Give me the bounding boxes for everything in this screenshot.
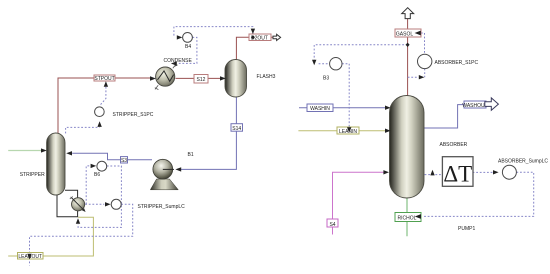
svg-text:S12: S12 (197, 77, 206, 83)
svg-text:GASOL: GASOL (396, 31, 413, 37)
svg-text:STRIPPER: STRIPPER (20, 172, 45, 178)
svg-text:S14: S14 (232, 126, 241, 132)
svg-text:WASHOUT: WASHOUT (462, 103, 487, 109)
svg-text:RICHOL: RICHOL (398, 216, 417, 222)
svg-text:B6: B6 (94, 172, 100, 178)
svg-text:STRIPPER_S1PC: STRIPPER_S1PC (113, 112, 154, 118)
svg-text:FLASH3: FLASH3 (257, 74, 276, 80)
svg-text:B4: B4 (185, 44, 191, 50)
svg-text:S3: S3 (121, 158, 127, 164)
svg-text:ΔT: ΔT (443, 161, 472, 186)
svg-text:B1: B1 (188, 152, 194, 158)
svg-text:B3: B3 (323, 76, 329, 82)
svg-text:WASHIN: WASHIN (310, 106, 330, 112)
svg-text:ABSORBER: ABSORBER (440, 142, 468, 148)
svg-text:S4: S4 (329, 222, 335, 228)
svg-text:PUMP1: PUMP1 (458, 226, 475, 232)
svg-text:STPOUT: STPOUT (94, 76, 114, 82)
svg-text:STRIPPER_SumpLC: STRIPPER_SumpLC (138, 204, 186, 210)
svg-text:ABSORBER_SumpLC: ABSORBER_SumpLC (498, 159, 548, 165)
svg-text:CONDENSE: CONDENSE (164, 58, 193, 64)
svg-text:ABSORBER_S1PC: ABSORBER_S1PC (435, 60, 479, 66)
